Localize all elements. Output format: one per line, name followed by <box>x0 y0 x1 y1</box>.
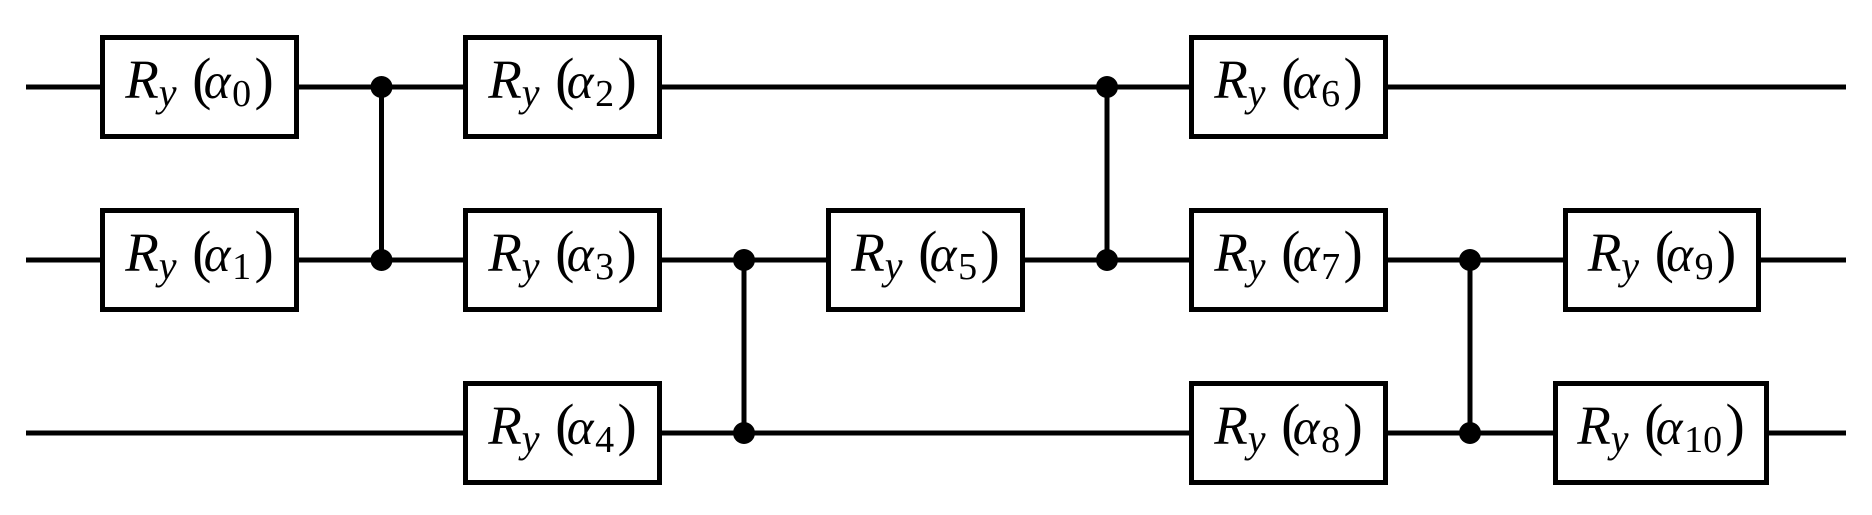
gate Ry(alpha9) on q1 <box>1566 211 1759 310</box>
gate Ry(alpha3) on q1 <box>466 211 660 310</box>
CZ link 2 control dot on q1 <box>733 249 755 271</box>
gate Ry(alpha10) on q2 <box>1556 384 1767 483</box>
CZ link 3 vertical wire q0-q1 <box>1105 87 1110 260</box>
CZ link 3 control dot on q0 <box>1096 76 1118 98</box>
CZ link 2 vertical wire q1-q2 <box>742 260 747 433</box>
wire q1 <box>26 258 1846 263</box>
CZ link 1 control dot on q1 <box>371 249 393 271</box>
CZ link 3 control dot on q1 <box>1096 249 1118 271</box>
gate Ry(alpha0) on q0 <box>103 38 297 137</box>
CZ link 2 control dot on q2 <box>733 422 755 444</box>
wire q2 <box>26 431 1846 436</box>
wire q0 <box>26 85 1846 90</box>
CZ link 1 vertical wire q0-q1 <box>379 87 384 260</box>
gate Ry(alpha2) on q0 <box>466 38 660 137</box>
CZ link 4 vertical wire q1-q2 <box>1468 260 1473 433</box>
gate Ry(alpha8) on q2 <box>1192 384 1386 483</box>
CZ link 4 control dot on q1 <box>1459 249 1481 271</box>
gate Ry(alpha5) on q1 <box>829 211 1023 310</box>
CZ link 4 control dot on q2 <box>1459 422 1481 444</box>
gate Ry(alpha7) on q1 <box>1192 211 1386 310</box>
gate Ry(alpha4) on q2 <box>466 384 660 483</box>
gate Ry(alpha6) on q0 <box>1192 38 1386 137</box>
CZ link 1 control dot on q0 <box>371 76 393 98</box>
gate Ry(alpha1) on q1 <box>103 211 297 310</box>
